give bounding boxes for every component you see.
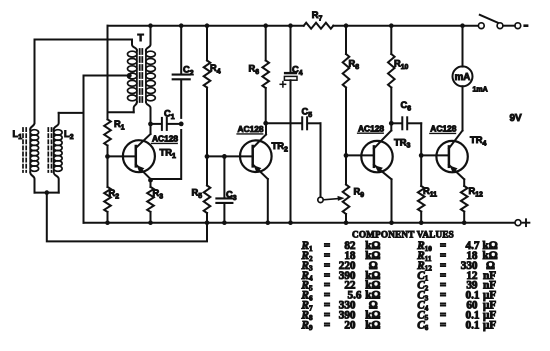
- wire TR3 emitter to rail: [391, 179, 393, 222]
- svg-text:kΩ: kΩ: [365, 319, 380, 331]
- wire TR4 base: [421, 154, 449, 156]
- table row C3 value: [417, 290, 496, 303]
- junction C1 right: [179, 122, 184, 127]
- table row R1 value: [301, 240, 381, 253]
- wire L2 to transformer tap: [59, 112, 84, 114]
- junction TR3 emitter rail: [389, 220, 394, 225]
- resistor R4: [204, 26, 221, 157]
- label L2: [64, 129, 74, 141]
- svg-text:COMPONENT VALUES: COMPONENT VALUES: [352, 230, 454, 240]
- node TR1 emitter: [148, 178, 153, 183]
- transistor TR1: [123, 134, 155, 179]
- wire TR2 emitter to rail: [267, 179, 269, 223]
- table row R6 value: [301, 290, 381, 303]
- wire rail down to R1: [107, 26, 109, 120]
- svg-text:1mA: 1mA: [473, 87, 488, 94]
- table row R4 value: [301, 270, 381, 283]
- svg-text:AC128: AC128: [430, 124, 456, 134]
- capacitor C5: [266, 107, 321, 130]
- node TR1 base: [105, 154, 110, 159]
- table row C5 value: [417, 309, 496, 322]
- svg-text:T: T: [138, 33, 145, 44]
- label AC128 TR3: [358, 123, 385, 133]
- svg-text:AC128: AC128: [238, 124, 264, 134]
- junction R3 bottom rail: [148, 220, 153, 225]
- wire TR1 collector to secondary: [150, 124, 152, 134]
- switch S1 (on-off): [478, 15, 520, 29]
- resistor R1: [104, 119, 125, 156]
- junction TR2 emitter rail: [266, 220, 271, 225]
- svg-text:9V: 9V: [510, 113, 523, 124]
- wire tap vertical: [83, 76, 85, 113]
- label TR3: [394, 136, 411, 149]
- capacitor C1: [151, 109, 182, 130]
- junction C3 tap: [222, 154, 227, 159]
- table row R12 value: [416, 260, 495, 273]
- wiper arrow to R9: [324, 196, 345, 201]
- svg-text:μF: μF: [483, 319, 496, 331]
- junction R5 bottom rail: [205, 220, 210, 225]
- wire top supply rail (negative): [108, 25, 478, 27]
- resistor R7: [304, 10, 334, 29]
- transistor TR3: [361, 131, 392, 180]
- label AC128 TR1: [152, 134, 179, 144]
- svg-text:20: 20: [344, 319, 356, 331]
- label TR1: [160, 147, 177, 160]
- svg-text:AC128: AC128: [152, 134, 178, 144]
- wire C6 down to base node: [420, 123, 422, 155]
- wire TR2 base: [207, 155, 253, 157]
- wire C5 to wiper: [320, 123, 322, 197]
- capacitor C6: [391, 100, 421, 129]
- meter M1 (mA): [453, 26, 473, 131]
- junction coils bottom: [45, 190, 50, 195]
- table row C6 value: [417, 319, 496, 332]
- resistor R9 (volume): [343, 155, 365, 222]
- transistor TR2: [240, 135, 272, 180]
- table row R10 value: [416, 240, 498, 253]
- resistor R11: [418, 155, 437, 222]
- table row R8 value: [301, 309, 381, 322]
- resistor R2: [104, 156, 119, 222]
- resistor R6: [249, 26, 270, 124]
- junction C3 bottom rail: [222, 220, 227, 225]
- junction R8 top rail: [344, 23, 349, 28]
- polarity + of C4: [280, 82, 285, 87]
- wire TR2 collector: [265, 123, 267, 134]
- junction R4 top rail: [205, 23, 210, 28]
- label AC128 TR4: [430, 124, 457, 134]
- label TR2: [272, 140, 289, 153]
- label AC128 TR2: [237, 124, 264, 134]
- transformer T secondary winding: [146, 26, 155, 124]
- table row C2 value: [417, 280, 496, 293]
- junction R2 bottom rail: [105, 220, 110, 225]
- transistor TR4: [436, 131, 467, 180]
- label L1: [13, 129, 23, 141]
- node TR3 base: [344, 153, 349, 158]
- junction R6 top rail: [263, 23, 268, 28]
- inductor L1: [23, 119, 39, 193]
- wire bottom supply rail (positive): [84, 76, 516, 223]
- table row R2 value: [301, 250, 381, 263]
- table row R5 value: [301, 280, 381, 293]
- wire TR3 collector: [390, 123, 392, 130]
- junction meter top rail: [460, 23, 465, 28]
- battery positive terminal: [515, 219, 529, 226]
- label T: [138, 33, 145, 44]
- table title COMPONENT VALUES: [352, 230, 454, 240]
- wire L1-L2 bottom bus: [35, 192, 59, 194]
- wire aerial to transformer primary top: [35, 39, 133, 41]
- junction transformer primary tap: [127, 73, 132, 78]
- terminal wiper: [318, 197, 323, 202]
- resistor R8: [343, 26, 360, 156]
- table row R7 value: [301, 300, 378, 313]
- wire L1 top feed: [34, 40, 36, 124]
- junction C4 top rail: [288, 23, 293, 28]
- junction C1 left: [148, 122, 153, 127]
- junction R9 bottom rail: [344, 220, 349, 225]
- junction R12 bottom rail: [462, 220, 467, 225]
- svg-text:0.1: 0.1: [466, 319, 480, 331]
- node TR2 base divider: [205, 154, 210, 159]
- svg-text:=: =: [440, 319, 446, 331]
- wire emitter to C1 return: [151, 130, 182, 179]
- capacitor C2: [173, 26, 194, 118]
- transformer T core: [140, 49, 143, 103]
- wire tap horizontal: [84, 75, 130, 77]
- inductor L2: [48, 113, 62, 193]
- wire coils to positive rail: [47, 193, 207, 242]
- node TR3 collector: [389, 121, 394, 126]
- label TR4: [470, 134, 487, 147]
- table row R9 value: [301, 319, 381, 332]
- table row R11 value: [416, 250, 498, 263]
- battery negative terminal: [523, 24, 528, 27]
- resistor R12: [461, 179, 483, 222]
- junction C4 bottom rail: [288, 220, 293, 225]
- node TR4 base: [419, 153, 424, 158]
- capacitor C3: [216, 156, 236, 222]
- label 9V: [510, 113, 523, 124]
- junction secondary top on rail: [148, 23, 153, 28]
- wire TR1 base: [108, 155, 136, 157]
- svg-text:mA: mA: [455, 72, 471, 83]
- table row C1 value: [417, 270, 496, 283]
- table row R3 value: [301, 260, 378, 273]
- junction R11 bottom rail: [419, 220, 424, 225]
- junction R10 top rail: [389, 23, 394, 28]
- label 1mA: [473, 87, 488, 94]
- resistor R3: [147, 179, 163, 223]
- node TR2 collector: [263, 121, 268, 126]
- transformer T primary winding: [128, 40, 137, 113]
- resistor R10: [388, 26, 409, 124]
- svg-text:AC128: AC128: [358, 123, 384, 133]
- resistor R5: [192, 156, 211, 222]
- capacitor C4 (electrolytic): [284, 26, 303, 223]
- wire primary bottom to R1 line: [108, 111, 134, 113]
- table row C4 value: [417, 300, 496, 313]
- wire TR3 base: [346, 154, 374, 156]
- junction C2 top rail: [179, 23, 184, 28]
- svg-text:=: =: [324, 319, 330, 331]
